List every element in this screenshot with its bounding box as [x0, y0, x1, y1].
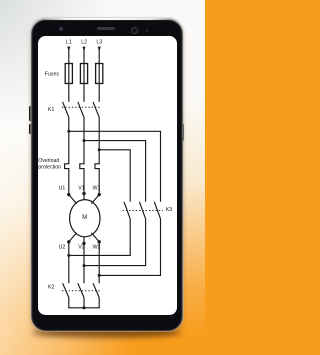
- svg-text:protection: protection: [38, 164, 61, 170]
- svg-text:W2: W2: [93, 245, 101, 251]
- svg-text:K2: K2: [48, 284, 54, 290]
- svg-text:V1: V1: [78, 185, 84, 191]
- svg-text:W1: W1: [93, 185, 101, 191]
- svg-text:M: M: [82, 215, 87, 221]
- svg-text:K3: K3: [166, 207, 172, 213]
- svg-text:L1: L1: [66, 40, 72, 46]
- svg-text:K1: K1: [48, 107, 54, 113]
- svg-text:U2: U2: [59, 245, 66, 251]
- svg-text:Fuses: Fuses: [45, 71, 60, 77]
- svg-text:V2: V2: [78, 245, 84, 251]
- svg-text:L3: L3: [96, 40, 102, 46]
- svg-text:Overload: Overload: [38, 158, 59, 164]
- svg-text:U1: U1: [59, 185, 66, 191]
- svg-text:L2: L2: [81, 40, 87, 46]
